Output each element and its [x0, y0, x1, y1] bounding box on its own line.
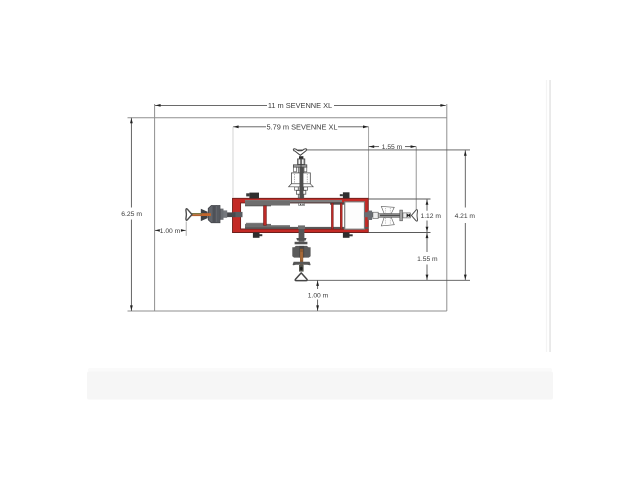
bottom attachment flange 2 — [295, 242, 308, 245]
left attachment cone — [201, 209, 208, 221]
top attachment bracket box — [289, 173, 314, 187]
bottom attachment neck 2 — [299, 265, 304, 272]
extension line left of 5.79 m — [232, 127, 234, 198]
extension line frame top right — [369, 198, 431, 200]
boundary box left edge — [154, 104, 156, 311]
boundary box right edge — [446, 104, 448, 311]
top attachment clevis — [299, 156, 303, 159]
top attachment wings — [295, 187, 308, 190]
clamp bottom-right — [343, 233, 353, 238]
clamp bottom-left — [253, 233, 262, 238]
svg-text:1.55 m: 1.55 m — [417, 256, 438, 263]
bottom stem crossing frame — [298, 225, 305, 229]
left attachment rod — [191, 213, 202, 216]
right attachment shaft from frame — [364, 212, 377, 217]
svg-text:5.79 m SEVENNE XL: 5.79 m SEVENNE XL — [266, 122, 337, 131]
extension line right hitch — [415, 147, 417, 210]
top stem crossing frame — [299, 203, 305, 205]
machine frame red tube — [232, 198, 368, 232]
bottom attachment neck 1 — [299, 241, 305, 242]
frame bottom drawbar gray — [245, 225, 290, 227]
frame crossmember right bar — [340, 203, 342, 229]
svg-text:4.21 m: 4.21 m — [455, 213, 476, 220]
left attachment spring orange — [202, 213, 211, 216]
frame top drawbar gray — [245, 201, 290, 205]
footer strip — [88, 368, 552, 372]
right attachment outline block — [373, 212, 378, 218]
svg-text:1.00 m: 1.00 m — [308, 292, 329, 299]
left attachment shaft stub through frame — [234, 212, 243, 217]
top attachment cylinder — [298, 159, 305, 165]
dimension 11 m SEVENNE XL — [155, 101, 446, 110]
bottom attachment stem dark center — [299, 246, 304, 258]
right attachment dark hub — [407, 213, 411, 217]
right attachment block — [403, 213, 410, 218]
svg-text:6.25 m: 6.25 m — [121, 211, 142, 218]
dimension 1.00 m bottom — [308, 280, 329, 311]
dimension 6.25 m — [121, 118, 142, 311]
top attachment stem — [298, 167, 303, 198]
dimension 5.79 m SEVENNE XL — [233, 122, 369, 198]
right tow eye triangle — [411, 210, 417, 221]
frame left inner post — [264, 206, 267, 226]
dimension 1.55 m bottom — [417, 233, 438, 281]
right attachment vertical tab — [368, 211, 373, 220]
frame right inner panel — [345, 202, 365, 229]
boundary box top edge — [128, 117, 447, 119]
dimension 1.12 m — [369, 199, 442, 233]
extension line left hitch — [185, 222, 187, 236]
left attachment main block — [208, 206, 220, 223]
svg-text:11 m SEVENNE XL: 11 m SEVENNE XL — [268, 101, 332, 110]
top attachment dark stem — [300, 168, 304, 199]
right attachment flange — [400, 210, 403, 221]
extension line right of 5.79 m — [368, 127, 370, 198]
boundary box bottom edge — [128, 310, 447, 312]
extension line bottom hitch — [308, 279, 470, 281]
top attachment flange — [293, 165, 306, 172]
bottom attachment main block — [292, 246, 310, 258]
bottom attachment brown stripe — [300, 249, 303, 269]
dimension 4.21 m — [296, 150, 475, 280]
dimension 1.00 m left — [155, 222, 186, 236]
frame bottom rail gray — [245, 227, 368, 229]
bottom attachment eye hole — [300, 267, 303, 270]
top attachment tow eye — [293, 149, 306, 156]
bottom attachment stem — [299, 229, 305, 238]
right attachment fan dashes — [385, 208, 390, 224]
frame top rail end step — [330, 202, 346, 204]
right attachment fan top — [381, 206, 394, 213]
right attachment shaft bar — [378, 214, 403, 218]
right page rule — [549, 80, 551, 352]
extension line top attachment — [296, 149, 470, 151]
frame crossmember left bar — [331, 203, 333, 229]
left attachment drawbar — [220, 209, 236, 220]
svg-text:1.12 m: 1.12 m — [420, 213, 441, 220]
bottom attachment flange 1 — [296, 238, 306, 241]
top attachment stem center line — [300, 159, 302, 168]
dimension 1.55 m top — [369, 144, 417, 209]
frame top rail gray — [245, 200, 342, 202]
right attachment shaft center rod — [380, 215, 406, 217]
right attachment fan bottom — [381, 217, 394, 226]
bottom attachment flange 3 — [293, 262, 311, 265]
svg-text:1.00 m: 1.00 m — [160, 228, 181, 235]
clamp top-right — [340, 192, 350, 198]
bottom tow eye triangle — [295, 273, 307, 281]
extension line frame bottom right — [369, 232, 431, 234]
top attachment collar — [296, 191, 305, 195]
clamp top-left — [246, 193, 259, 199]
left tow eye triangle — [186, 209, 192, 220]
